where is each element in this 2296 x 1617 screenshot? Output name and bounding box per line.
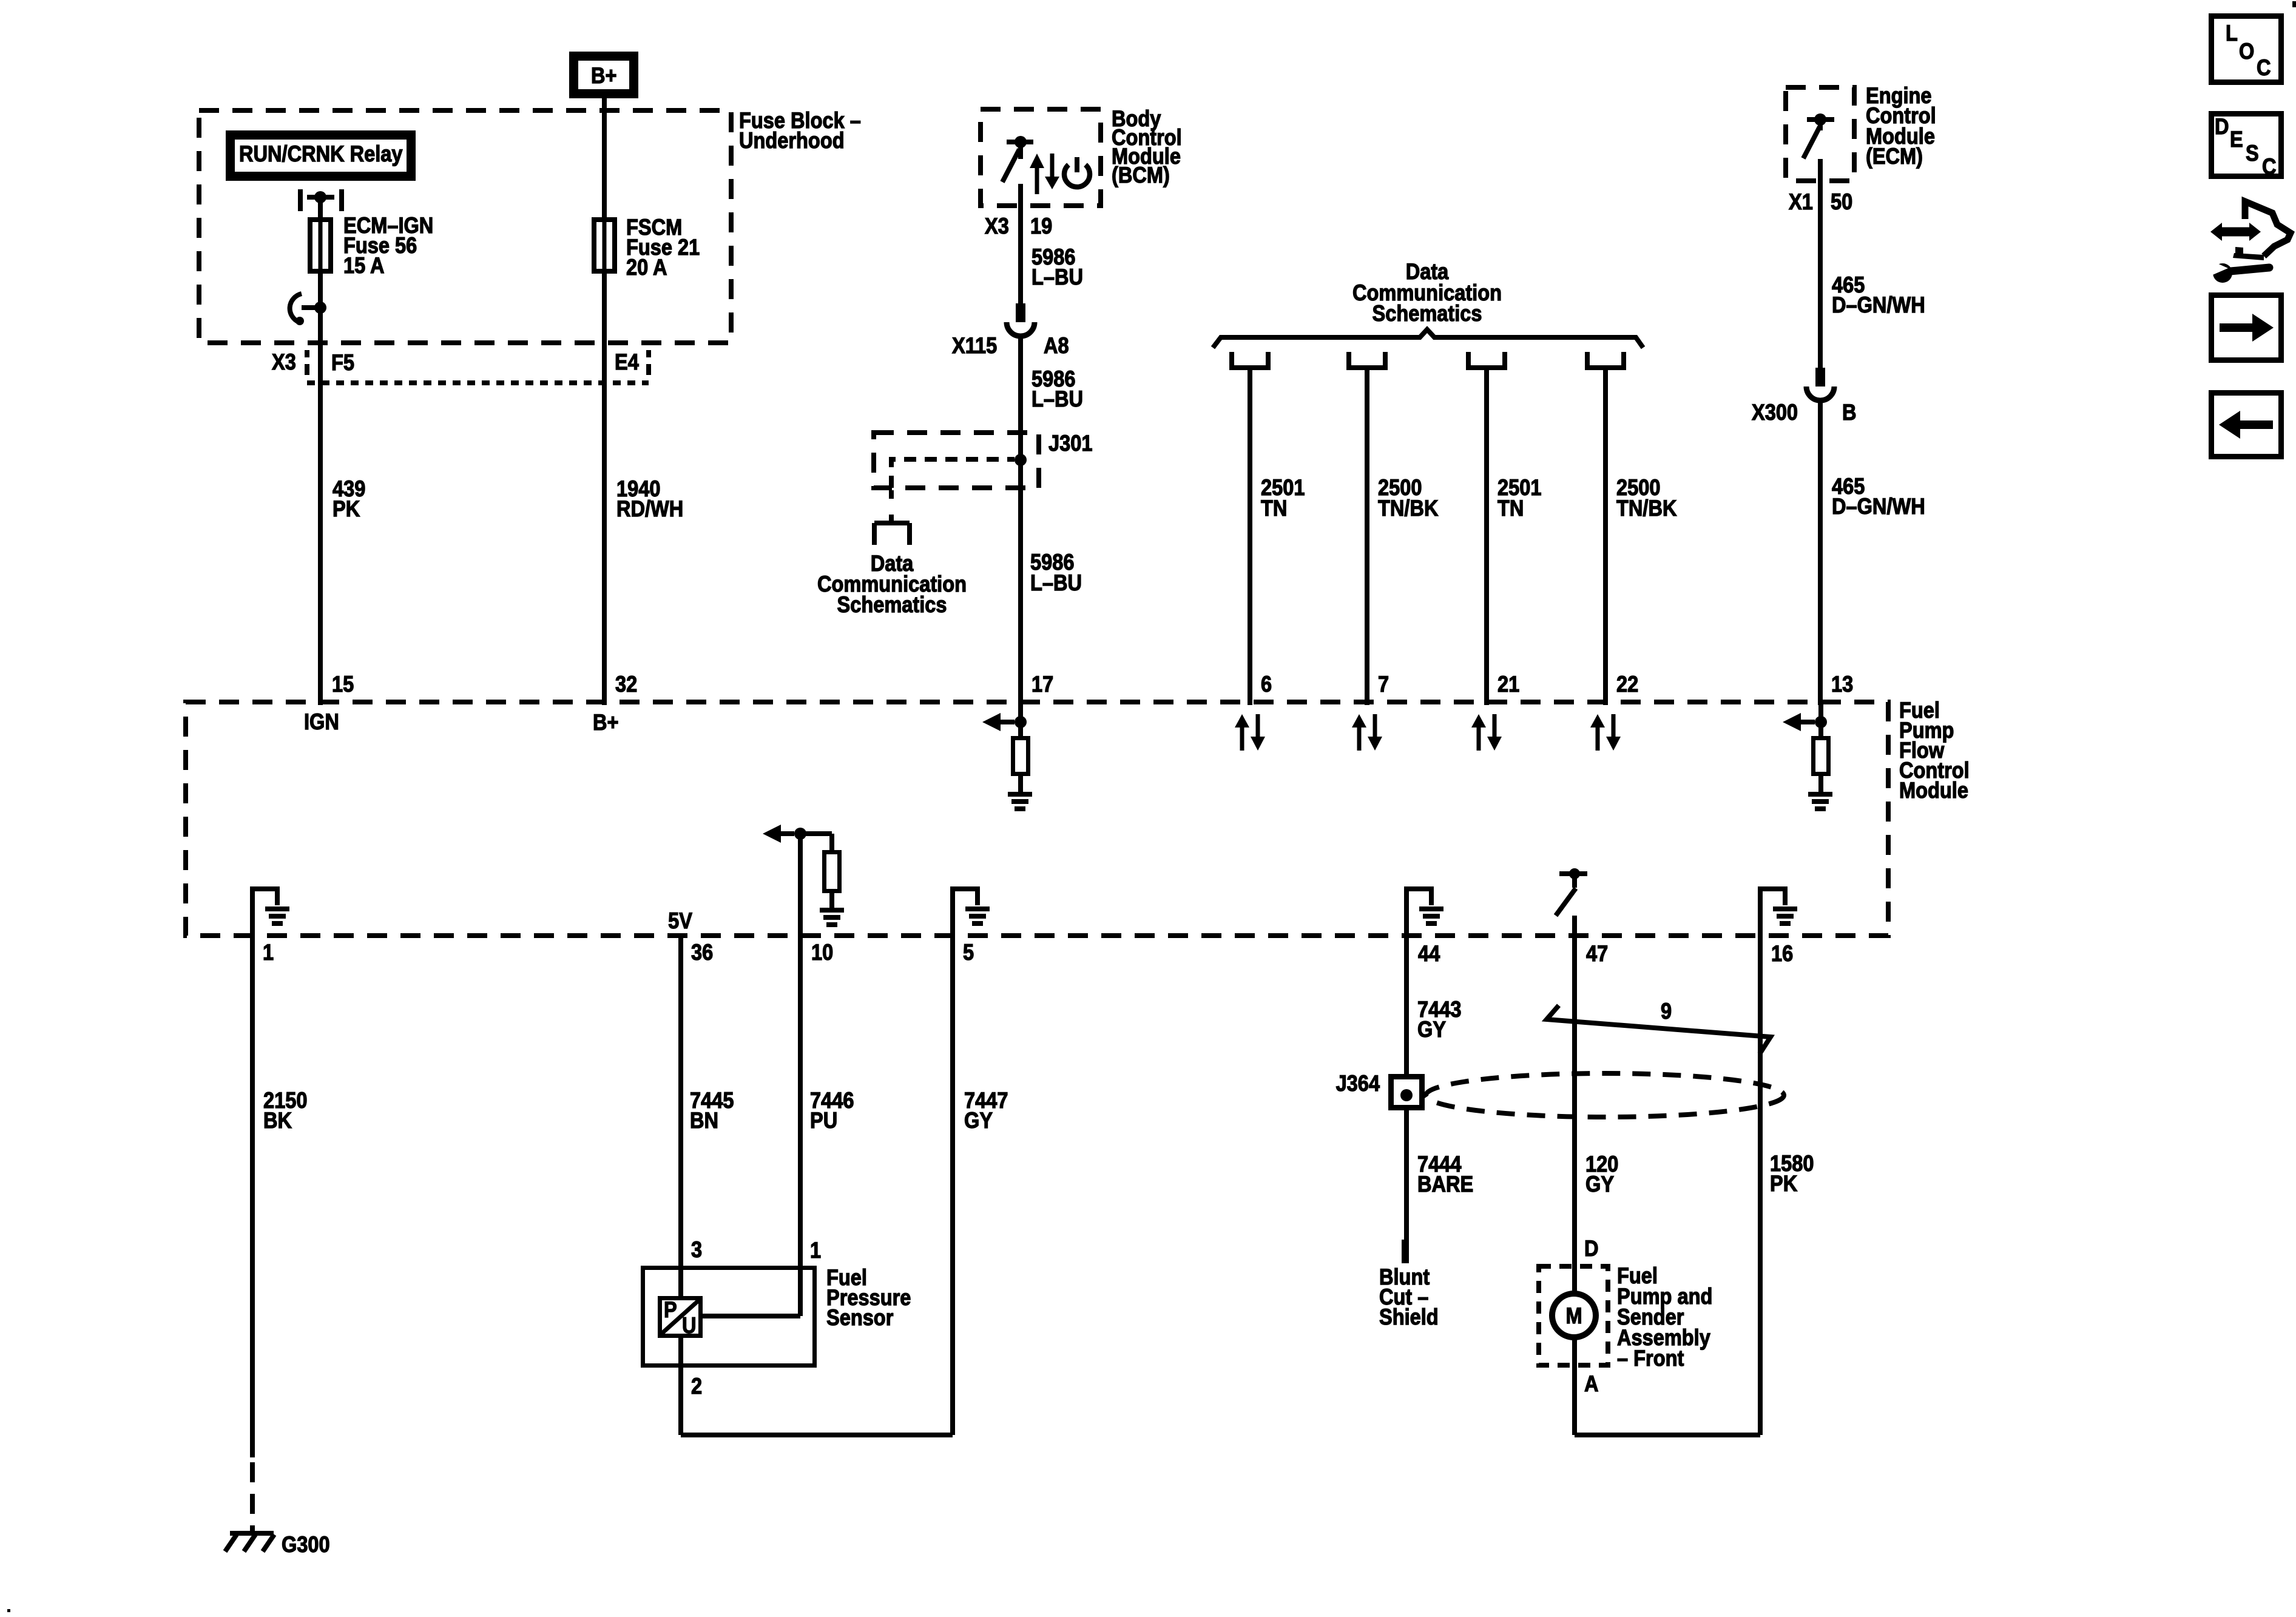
svg-text:GY: GY [1585, 1172, 1614, 1197]
wire B+ to FSCM fuse [602, 98, 607, 217]
svg-text:J364: J364 [1336, 1071, 1380, 1096]
brace data communication [1213, 329, 1643, 348]
svg-text:IGN: IGN [304, 709, 339, 734]
connector tick right [646, 350, 651, 357]
J301 junction dot [1015, 454, 1027, 466]
bidirectional arrows pin 22 [1590, 714, 1605, 727]
svg-text:15: 15 [332, 672, 354, 697]
svg-text:TN: TN [1497, 496, 1524, 521]
ground pin 10 [820, 908, 844, 913]
Fuel Pressure Sensor box [643, 1268, 815, 1366]
svg-text:13: 13 [1831, 672, 1853, 697]
resistor pin 17 [1013, 738, 1028, 774]
terminator data wire 3 [1466, 352, 1471, 369]
svg-text:17: 17 [1032, 672, 1053, 697]
bidirectional arrows pin 21 [1471, 714, 1486, 727]
svg-text:X3: X3 [272, 349, 296, 374]
svg-text:X1: X1 [1789, 189, 1813, 214]
svg-text:S: S [2246, 141, 2259, 166]
svg-text:Schematics: Schematics [1373, 301, 1482, 326]
shield ellipse [1426, 1073, 1784, 1117]
svg-text:RUN/CRNK Relay: RUN/CRNK Relay [239, 141, 403, 166]
pin 47 switch bar [1559, 871, 1587, 876]
svg-text:(BCM): (BCM) [1112, 163, 1170, 187]
ground hook pin 44 [1404, 886, 1409, 938]
svg-text:D: D [2215, 114, 2229, 139]
ground pin 13 [1808, 792, 1832, 797]
fuse F21 FSCM [594, 220, 615, 271]
ground G300 chassis [230, 1531, 274, 1536]
svg-text:B+: B+ [591, 63, 617, 88]
wrench navigation icon [2210, 223, 2222, 241]
pin 17 arrow left [982, 713, 1001, 731]
svg-text:44: 44 [1418, 941, 1440, 966]
J364 junction dot [1400, 1089, 1413, 1101]
svg-text:B+: B+ [593, 710, 619, 735]
resistor to ground wire pin 10 [829, 893, 834, 908]
twisted pair line 9 [1547, 1005, 1771, 1054]
svg-text:B: B [1842, 400, 1857, 425]
motor wire down [1572, 1337, 1577, 1435]
svg-text:10: 10 [811, 940, 833, 965]
svg-text:C: C [2257, 55, 2271, 80]
svg-text:J301: J301 [1048, 431, 1092, 456]
resistor to ground wire [1018, 776, 1023, 792]
svg-text:E4: E4 [615, 349, 639, 374]
sensor pin 2 wire [678, 1338, 683, 1435]
resistor pin 10 [825, 852, 840, 891]
resistor pin 13 [1814, 738, 1829, 774]
junction dot relay contact [314, 191, 326, 203]
svg-text:1: 1 [810, 1238, 821, 1263]
splice J364 box [1391, 1077, 1422, 1108]
pin 13 arrow left [1783, 713, 1801, 731]
data wire 2 [1365, 370, 1369, 705]
ECM wire down [1818, 159, 1823, 368]
svg-text:6: 6 [1261, 672, 1272, 697]
svg-text:A8: A8 [1044, 333, 1069, 358]
relay contact terminals [298, 189, 303, 211]
svg-text:E: E [2230, 127, 2243, 152]
svg-text:5: 5 [963, 940, 974, 965]
resistor to ground wire pin 13 [1818, 776, 1823, 792]
DESC icon box [2212, 114, 2281, 177]
ECM junction dot [1814, 113, 1826, 126]
pin 13 junction dot [1815, 716, 1827, 728]
Body Control Module box [981, 109, 1101, 206]
bidirectional arrows pin 7 [1352, 714, 1366, 727]
svg-text:5V: 5V [668, 908, 692, 933]
svg-text:PK: PK [333, 496, 360, 521]
svg-text:Shield: Shield [1379, 1305, 1439, 1329]
sensor internal link wire [798, 1266, 803, 1316]
terminator data wire 1 [1229, 352, 1234, 369]
svg-text:A: A [1584, 1371, 1599, 1396]
svg-text:M: M [1565, 1303, 1582, 1328]
wire 7447 GY [950, 938, 955, 1435]
svg-text:L: L [2226, 21, 2238, 46]
svg-text:2: 2 [691, 1374, 702, 1399]
svg-text:P: P [664, 1297, 677, 1322]
svg-text:F5: F5 [331, 350, 354, 375]
svg-text:GY: GY [964, 1108, 993, 1133]
svg-text:G300: G300 [282, 1532, 330, 1557]
BCM up arrow [1030, 154, 1044, 168]
pin 10 arrow left [763, 825, 781, 843]
svg-text:(ECM): (ECM) [1866, 144, 1923, 169]
svg-text:15 A: 15 A [343, 253, 385, 278]
pin 17 junction dot [1015, 716, 1027, 728]
connector dotted line X3-E4 [307, 380, 649, 385]
svg-text:BN: BN [690, 1108, 718, 1133]
svg-text:TN: TN [1261, 496, 1287, 521]
svg-text:L–BU: L–BU [1030, 570, 1082, 595]
svg-text:50: 50 [1831, 189, 1852, 214]
BCM switch stub [1018, 142, 1023, 159]
svg-text:X115: X115 [952, 333, 997, 358]
svg-text:PU: PU [810, 1108, 837, 1133]
bidirectional arrows pin 6 [1235, 714, 1249, 727]
ground hook pin 16 [1758, 886, 1763, 938]
B+ battery terminal [574, 56, 634, 94]
wire 7445 BN [678, 938, 683, 1298]
BCM switch blade [1002, 149, 1019, 182]
pin 10 junction dot [794, 828, 806, 840]
sensor return wire to pin 5 [681, 1433, 953, 1437]
BCM down arrow [1050, 154, 1055, 178]
wire 7443 GY [1404, 938, 1409, 1076]
svg-text:C: C [2262, 154, 2277, 179]
pin 13 internal wire [1818, 702, 1823, 736]
wire 120 GY pin 47 [1572, 916, 1577, 1296]
connector X115 inline [1016, 303, 1025, 322]
ground pin 17 [1008, 792, 1032, 797]
svg-text:22: 22 [1616, 672, 1638, 697]
ECM switch blade [1803, 127, 1820, 158]
wire 2150 BK dashed to ground [250, 1462, 255, 1531]
wire fuse 56 down [318, 274, 323, 705]
svg-text:X300: X300 [1752, 400, 1798, 425]
ECM switch bar [1807, 117, 1834, 122]
connector tick left [305, 350, 309, 357]
svg-text:TN/BK: TN/BK [1616, 496, 1676, 521]
BCM wire to connector [1018, 184, 1023, 303]
svg-text:L–BU: L–BU [1032, 265, 1083, 289]
svg-text:1: 1 [263, 940, 274, 965]
svg-text:21: 21 [1497, 672, 1519, 697]
svg-text:X3: X3 [985, 214, 1009, 238]
Engine Control Module box [1786, 87, 1854, 181]
blunt cut terminal [1402, 1240, 1409, 1263]
wire below X115 [1018, 337, 1023, 705]
svg-text:32: 32 [615, 672, 637, 697]
svg-text:20 A: 20 A [626, 255, 667, 280]
wire fuse 21 down [602, 274, 607, 705]
pin 47 switch blade [1556, 888, 1576, 916]
svg-text:GY: GY [1417, 1017, 1446, 1042]
BCM junction dot [1015, 136, 1027, 148]
pin 47 junction dot [1569, 868, 1580, 879]
svg-text:36: 36 [691, 940, 713, 965]
wire 2150 BK [250, 938, 255, 1457]
splice J301 outer box [874, 433, 1039, 488]
svg-text:D: D [1584, 1236, 1599, 1261]
BCM power symbol [1064, 165, 1090, 187]
motor M fuel pump [1552, 1294, 1596, 1337]
previous page arrow icon [2212, 393, 2281, 457]
splice J301 inner box [891, 459, 1015, 488]
svg-text:47: 47 [1586, 941, 1608, 966]
svg-text:16: 16 [1771, 941, 1793, 966]
svg-text:9: 9 [1661, 999, 1672, 1024]
Fuse Block - Underhood box [199, 110, 731, 343]
data wire 1 [1248, 370, 1252, 705]
svg-text:PK: PK [1770, 1171, 1797, 1196]
terminator data wire 2 [1346, 352, 1351, 369]
LOC icon box [2212, 16, 2281, 83]
pin 10 link to resistor [798, 831, 832, 836]
off-page connector bracket [889, 515, 894, 523]
svg-text:– Front: – Front [1617, 1346, 1684, 1371]
next page arrow icon [2212, 295, 2281, 360]
data wire 3 [1484, 370, 1489, 705]
wire 7446 PU [798, 938, 803, 1314]
wire below X300 [1818, 402, 1823, 705]
pin 47 switch stub [1572, 874, 1577, 888]
junction dot switch [314, 302, 326, 314]
relay switch hook [290, 294, 302, 322]
pin 17 internal wire [1018, 702, 1023, 736]
svg-text:Schematics: Schematics [837, 592, 947, 617]
svg-text:U: U [682, 1313, 697, 1338]
svg-text:Sensor: Sensor [826, 1305, 894, 1330]
svg-text:BK: BK [263, 1108, 292, 1133]
svg-text:TN/BK: TN/BK [1378, 496, 1438, 521]
ground hook pin 1 [250, 886, 255, 938]
svg-text:19: 19 [1030, 214, 1052, 238]
terminator data wire 4 [1585, 352, 1590, 369]
wire 1580 PK pin 16 [1758, 938, 1763, 1435]
svg-text:7: 7 [1378, 672, 1389, 697]
RUN/CRNK Relay box [231, 135, 411, 177]
Fuel Pump Flow Control Module box [186, 702, 1888, 936]
svg-text:D–GN/WH: D–GN/WH [1832, 292, 1925, 317]
svg-text:D–GN/WH: D–GN/WH [1832, 494, 1925, 519]
BCM switch bar [1007, 140, 1033, 144]
Fuel Pump and Sender Assembly box [1539, 1266, 1608, 1365]
svg-text:3: 3 [691, 1237, 702, 1262]
J301 stub down [889, 490, 894, 505]
svg-text:RD/WH: RD/WH [616, 496, 683, 521]
P/U sensor element [660, 1298, 701, 1336]
wire 7444 BARE [1404, 1110, 1409, 1242]
ECM switch stub [1818, 120, 1823, 130]
svg-text:BARE: BARE [1417, 1172, 1473, 1197]
svg-text:O: O [2239, 39, 2254, 64]
ground hook pin 5 [950, 886, 955, 938]
connector X300 inline [1815, 368, 1825, 387]
corner mark bottom left [7, 1609, 10, 1612]
svg-text:Underhood: Underhood [739, 128, 845, 153]
pin 10 internal wire [798, 834, 803, 938]
svg-text:Module: Module [1899, 778, 1968, 803]
pump return wire [1575, 1433, 1760, 1437]
svg-text:L–BU: L–BU [1032, 387, 1083, 411]
corner mark top right [2292, 1, 2296, 7]
wire relay to fuse 56 [318, 197, 323, 217]
fuse F56 ECM-IGN [310, 220, 331, 271]
data wire 4 [1603, 370, 1608, 705]
